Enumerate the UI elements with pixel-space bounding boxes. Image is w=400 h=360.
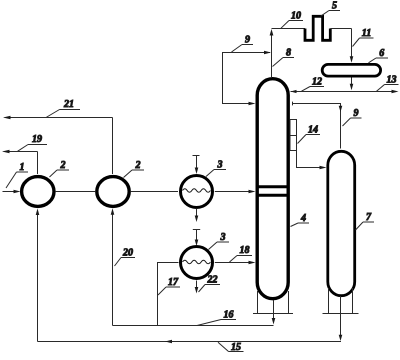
label 3 (lower exchanger) — [209, 232, 230, 250]
heat exchanger 3 lower (circle) — [181, 247, 213, 279]
svg-text:6: 6 — [379, 48, 384, 59]
wire line 10 to furnace 5 — [272, 28, 306, 30]
label 10 — [281, 11, 303, 29]
svg-text:1: 1 — [20, 162, 25, 173]
arrowhead line 22 drain — [195, 287, 199, 294]
svg-text:11: 11 — [362, 28, 371, 39]
wire overhead line 8 from column 4 top — [271, 31, 273, 77]
label 3 (upper exchanger) — [206, 160, 226, 177]
label 4 — [291, 213, 310, 227]
mixer 2 (circle) — [97, 177, 129, 207]
wire feed line upper exchanger to column 4 — [215, 191, 250, 193]
wire line 12/13 horizontal — [291, 91, 395, 93]
label 16 — [197, 310, 236, 326]
svg-text:14: 14 — [308, 125, 318, 136]
label 1 — [6, 162, 28, 188]
arrowhead bottoms onto line 16 — [272, 318, 276, 325]
label 20 — [115, 248, 136, 267]
wire line 18 lower exchanger to column 4 — [215, 262, 250, 264]
wire line 21 horizontal — [5, 117, 113, 119]
wire mixer1 to mixer2 — [55, 191, 95, 193]
label 12 — [302, 77, 325, 92]
svg-text:10: 10 — [291, 11, 301, 22]
arrowhead line 9 down to column 7 — [339, 106, 343, 112]
arrowhead line 18 into column 4 — [249, 261, 256, 265]
drum 6 (horizontal vessel) — [322, 64, 380, 76]
arrowhead drain upper exchanger — [195, 216, 199, 223]
wire mixer2 to heat exchanger 3 upper — [131, 191, 178, 193]
tray bar lower in column 4 — [256, 194, 290, 197]
arrowhead small at column 4 wall on line 12 — [291, 90, 297, 93]
label 17 — [158, 277, 180, 295]
label 11 — [353, 28, 374, 47]
svg-text:20: 20 — [122, 248, 133, 259]
wire line 21 vertical down to mixer 2 — [112, 118, 114, 175]
svg-text:21: 21 — [63, 99, 74, 110]
arrowhead into upper exchanger top — [195, 168, 199, 175]
svg-text:2: 2 — [135, 160, 141, 171]
wire line 17 from line 16 up to lower exchanger — [158, 263, 179, 327]
svg-text:8: 8 — [286, 48, 291, 59]
label 9 (left) — [232, 35, 254, 53]
label 5 — [321, 1, 341, 17]
wavy tube line inside upper exchanger — [183, 189, 211, 192]
label 18 — [230, 245, 253, 262]
wire column 4 bottoms pipe down — [273, 300, 275, 320]
svg-text:22: 22 — [207, 275, 218, 286]
svg-text:3: 3 — [220, 232, 226, 243]
side draw box 14 on column 4 — [290, 120, 297, 151]
wire line 19 vertical down to mixer 1 — [37, 152, 39, 175]
arrowhead line 21 left — [3, 116, 11, 120]
wire line 9 left loop — [223, 53, 271, 104]
label 8 — [273, 48, 295, 67]
arrowhead into column 7 left — [320, 166, 327, 170]
svg-text:12: 12 — [312, 77, 322, 88]
label 6 — [369, 48, 389, 63]
svg-text:3: 3 — [217, 160, 223, 171]
coolant inlet T-bar upper exchanger — [193, 156, 200, 171]
arrowhead line 1 into mixer 1 — [14, 190, 21, 194]
arrowhead line 9 into column 4 left — [249, 102, 256, 106]
label 19 — [18, 134, 48, 151]
coolant outlet below upper exchanger — [196, 209, 198, 218]
arrowhead line 9 into line 8 — [264, 51, 271, 55]
wire box 14 to column 7 — [297, 151, 323, 168]
svg-text:4: 4 — [300, 213, 306, 224]
wire column 7 bottoms pipe down to line 15 — [340, 296, 342, 337]
divider in box 14 — [290, 135, 297, 137]
wire drum 6 bottom to line 12 — [351, 78, 353, 87]
tray bar upper in column 4 — [256, 185, 290, 188]
label 22 — [199, 275, 221, 293]
wire line 1 feed into mixer 1 — [3, 191, 15, 193]
label 21 — [46, 99, 80, 118]
arrowhead line 11 into drum 6 — [350, 56, 354, 63]
arrowhead onto line 12 — [350, 84, 354, 91]
arrowhead feed into column 4 — [249, 190, 256, 194]
mixer 1 (circle) — [22, 177, 54, 207]
column 7 vessel — [328, 151, 355, 295]
svg-text:13: 13 — [387, 75, 397, 86]
svg-text:17: 17 — [168, 277, 179, 288]
svg-text:9: 9 — [245, 35, 250, 46]
arrowhead line 20 into mixer 2 bottom — [111, 208, 115, 215]
svg-text:18: 18 — [240, 245, 250, 256]
wire line 15 vertical up to mixer 1 — [37, 212, 39, 342]
arrowhead line 13 right — [392, 90, 399, 94]
arrowhead line 19 left — [2, 150, 10, 154]
wire line 19 horizontal — [4, 151, 38, 153]
arrowhead mid line 15 pointing left — [165, 340, 172, 344]
label 2 (mixer 1) — [50, 160, 70, 177]
wire line 16 horizontal — [113, 325, 274, 327]
furnace coil 5 (square-wave symbol) — [305, 16, 330, 40]
arrowhead line 8 up — [270, 29, 274, 36]
wire line 15 horizontal — [38, 341, 342, 343]
label 9 (right) — [343, 108, 362, 126]
svg-text:2: 2 — [60, 160, 66, 171]
label 15 — [218, 342, 244, 353]
column 4 support legs and base line — [253, 291, 293, 314]
svg-text:9: 9 — [354, 108, 359, 119]
wire line 10 continues furnace to corner — [330, 28, 351, 30]
label 13 — [377, 75, 399, 92]
wire line 9 right column 4 to column 7 — [293, 104, 341, 149]
heating inlet T-bar lower exchanger — [193, 230, 200, 243]
svg-text:16: 16 — [224, 310, 234, 321]
wire line 11 vertical down to drum 6 — [351, 29, 353, 60]
wavy tube line inside lower exchanger — [183, 260, 211, 263]
arrowhead line 15 into mixer 1 bottom — [36, 209, 40, 216]
label 7 — [356, 212, 375, 230]
label 2 (mixer 2) — [124, 160, 145, 178]
column 7 support legs and base line — [323, 288, 359, 314]
svg-text:19: 19 — [32, 134, 42, 145]
wire line 20 vertical mixer2 to line 16 — [112, 212, 114, 326]
arrowhead into lower exchanger top — [195, 240, 199, 247]
label 14 — [298, 125, 321, 144]
outlet below lower exchanger — [196, 281, 198, 289]
column 4 vessel — [257, 79, 288, 299]
svg-text:5: 5 — [332, 1, 337, 12]
arrowhead column 7 bottoms onto line 15 — [339, 335, 343, 341]
tick at start of line 9 right — [292, 102, 294, 106]
heat exchanger 3 upper (circle) — [181, 176, 213, 208]
